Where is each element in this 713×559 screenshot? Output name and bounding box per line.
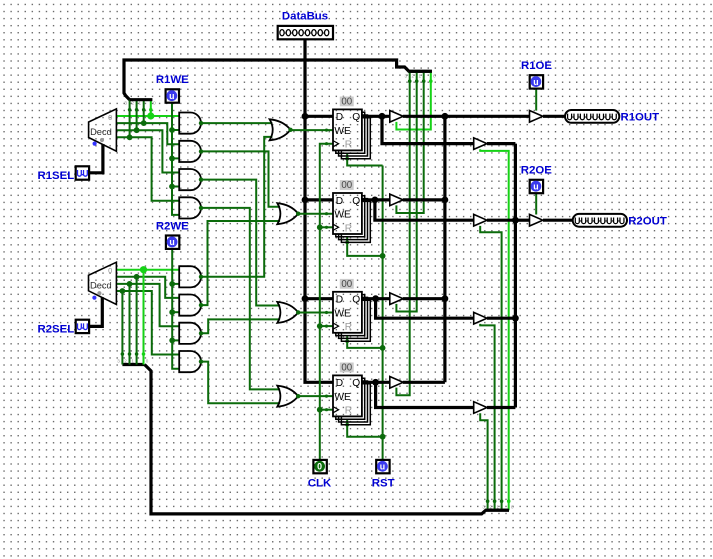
svg-text:1: 1 [131, 359, 134, 364]
output pin R2OUT (8-bit) [573, 214, 627, 227]
wire register 4 Q branch to R2 buffer [376, 382, 474, 407]
wire buffer3 out to R1 bus [403, 297, 445, 300]
wire splitter D bit3 riser [121, 291, 123, 365]
wire D input tap register 2 [305, 198, 333, 201]
wire splitter D bit0 riser [143, 270, 145, 365]
wire CLK stub register 2 [320, 226, 333, 228]
register REG3 (8-bit D register with WE and reset) [333, 292, 370, 341]
svg-text:2: 2 [124, 359, 127, 364]
wire decoder1 out3 to AND g4 [116, 137, 179, 201]
wire R2SEL pin to decoder2 select [89, 297, 103, 326]
wire g2 out to OR2 top [201, 151, 280, 206]
input pin RST [376, 460, 389, 473]
node decoder1 output junctions [147, 112, 154, 119]
svg-text:RST: RST [372, 477, 395, 489]
node register pin nubs [325, 129, 328, 132]
wire D input tap register 1 [305, 115, 333, 118]
wire register 2 R to RST rail [347, 237, 382, 256]
tri-state buffer R1OE output [530, 111, 543, 123]
register REG2 (8-bit D register with WE and reset) [333, 193, 370, 242]
wire register 4 R to RST rail [347, 420, 382, 437]
wire g3 out to OR3 top [201, 180, 280, 306]
svg-text:D: D [336, 378, 343, 389]
svg-text:1: 1 [496, 504, 499, 509]
svg-text:3: 3 [405, 74, 408, 79]
svg-text:R1SEL: R1SEL [37, 170, 74, 182]
svg-text:D: D [336, 196, 343, 207]
wire R2 select bus (splitter D to splitter C, bottom rail) [145, 365, 510, 514]
wire decoder1 out2 to AND g3 [116, 130, 179, 172]
svg-text:R: R [345, 223, 352, 234]
wire R1 enable bit row2 to buffer [396, 71, 423, 213]
node splitter B bit ends [429, 79, 433, 83]
wire register 3 Q branch to R2 buffer [376, 299, 474, 319]
input pin DataBus (8-bit) [278, 26, 333, 39]
input pin R1OE [530, 75, 543, 88]
wire R2OE pin to buffer enable [535, 193, 537, 215]
svg-text:00: 00 [341, 363, 352, 374]
wire R2WE stub to AND input [172, 283, 179, 285]
wire CLK stub register 4 [320, 409, 333, 411]
OR gate o4 (register 4 WE) [277, 386, 298, 407]
tri-state buffer b2 (reg2 to R1 bus) [390, 194, 403, 206]
node RST rail junctions [380, 253, 386, 259]
splitter C fan (R2 enable bus) [486, 509, 509, 512]
wire R2WE rail [172, 249, 179, 369]
wire register 3 Q out [362, 297, 390, 300]
wire splitter D bit1 riser [136, 277, 138, 365]
wire decoder1 out1 to AND g2 [116, 123, 179, 144]
svg-text:3: 3 [482, 504, 485, 509]
input pin R1WE [166, 89, 179, 102]
node register R pin exits [345, 157, 349, 161]
wire R2WE stub to AND input [172, 339, 179, 341]
wire register 2 Q out [362, 198, 390, 201]
wire splitter D bit2 riser [129, 284, 131, 365]
svg-text:00: 00 [341, 97, 352, 108]
wire decoder2 out3 to AND g8 [116, 291, 179, 355]
wire RST rail [382, 166, 384, 460]
svg-text:3: 3 [124, 101, 127, 106]
wire R1OE pin to buffer enable [535, 88, 537, 110]
svg-text:u: u [169, 237, 174, 247]
svg-text:D: D [336, 112, 343, 123]
node R1WE rail junctions [169, 127, 175, 133]
wire R1 enable bit row3 to buffer [396, 71, 416, 311]
OR gate o3 (register 3 WE) [277, 302, 298, 323]
wire register 4 Q out [362, 381, 390, 384]
wire R2 enable bit row3 to buffer [480, 324, 494, 510]
wire g1 out to OR1 top [201, 122, 272, 124]
wire D input tap register 3 [305, 297, 333, 300]
svg-text:u: u [533, 77, 538, 87]
svg-text:0: 0 [108, 113, 112, 122]
svg-text:DataBus: DataBus [282, 10, 328, 22]
wire R2 bus to R2OE buffer and R2OUT pin [515, 219, 529, 222]
svg-text:1: 1 [139, 101, 142, 106]
input pin R2OE [530, 180, 543, 193]
wire R1OE buffer out to R1OUT pin [543, 115, 565, 118]
wire R1WE stub to AND input [172, 157, 179, 159]
decoder U2 (R2SEL) [89, 262, 117, 304]
svg-text:0: 0 [317, 462, 322, 472]
svg-text:2: 2 [131, 101, 134, 106]
svg-text:0: 0 [153, 101, 156, 106]
svg-text:R1WE: R1WE [156, 74, 189, 86]
wire CLK rail [320, 144, 333, 460]
wire R2 buffer 3 out to R2 bus [487, 317, 515, 320]
wire R2 buffer 2 out to R2 bus [487, 219, 515, 222]
wire R2WE stub to AND input [172, 311, 179, 313]
svg-text:0: 0 [433, 74, 436, 79]
register REG1 value label 00 [340, 97, 354, 107]
svg-text:2: 2 [489, 504, 492, 509]
wire splitter A bit2 drop [136, 100, 138, 131]
node R2WE rail junctions [169, 281, 175, 287]
node splitter A bit ends [149, 108, 153, 112]
register REG2 value label 00 [340, 180, 354, 190]
register REG4 value label 00 [340, 363, 354, 373]
svg-text:Decd: Decd [90, 127, 112, 137]
svg-text:3: 3 [117, 359, 120, 364]
svg-text:WE: WE [334, 210, 351, 221]
wire OR2 out to register 2 WE [298, 213, 333, 215]
wire R2 enable bit row4 to buffer [480, 413, 487, 510]
register REG4 (8-bit D register with WE and reset) [333, 375, 370, 424]
tri-state buffer R2OE output [530, 214, 543, 226]
svg-text:0: 0 [108, 266, 112, 275]
register REG3 value label 00 [340, 279, 354, 289]
wire decoder2 out2 to AND g7 [116, 284, 179, 326]
wire register1 Q to R1OUT line [362, 115, 390, 118]
svg-text:R2SEL: R2SEL [37, 323, 74, 335]
svg-text:00: 00 [341, 279, 352, 290]
svg-text:u: u [533, 181, 538, 191]
wire R2 enable bit row2 to buffer [480, 226, 501, 510]
wire decoder1 out0 to AND g1 [116, 115, 179, 117]
svg-text:WE: WE [334, 126, 351, 137]
svg-text:R2WE: R2WE [156, 220, 189, 232]
node register Q branches [379, 113, 386, 120]
wire buffer2 out to R1 bus [403, 198, 445, 201]
wire OR4 out to register 4 WE [298, 395, 333, 397]
AND gate g7 (R2 write decode 2) [179, 323, 201, 344]
svg-text:0: 0 [511, 504, 514, 509]
wire decoder2 out1 to AND g6 [116, 277, 179, 298]
wire R1 collect bus vertical [443, 116, 446, 382]
svg-text:CLK: CLK [308, 477, 332, 489]
node splitter C bit ends [507, 499, 511, 503]
wire g8 out to OR4 bottom [201, 362, 280, 404]
node databus D taps [302, 113, 309, 120]
svg-text:1: 1 [419, 74, 422, 79]
tri-state buffer b3 (reg3 to R1 bus) [390, 293, 403, 305]
wire splitter A bit3 drop [129, 100, 131, 138]
svg-text:Decd: Decd [90, 281, 112, 291]
node R2 bus joins [512, 217, 519, 224]
svg-text:R2OE: R2OE [521, 165, 552, 177]
input pin R2WE [166, 236, 179, 249]
svg-text:WE: WE [334, 392, 351, 403]
node decoder2 output junctions [140, 266, 147, 273]
wire R1WE stub to AND input [172, 129, 179, 131]
wire splitter A bit0 drop [150, 100, 152, 116]
wire g7 out to OR3 bottom [201, 319, 280, 333]
wire R2 collect bus vertical [514, 144, 517, 408]
svg-text:Q: Q [352, 196, 360, 207]
tri-state buffer b5 (reg1 to R2 bus) [474, 138, 487, 150]
wire databus vertical trunk [305, 39, 333, 382]
input pin R1SEL (2-bit) [76, 166, 89, 179]
wire R1SEL pin to decoder1 select [89, 144, 103, 173]
svg-text:R: R [345, 406, 352, 417]
wire R1WE stub to AND input [172, 186, 179, 188]
svg-text:WE: WE [334, 308, 351, 319]
svg-text:Q: Q [352, 112, 360, 123]
wire g4 out to OR4 top [201, 208, 280, 390]
wire g6 out to OR2 bottom [201, 221, 280, 305]
wire OR1 out to register 1 WE [291, 129, 334, 131]
wire decoder2 out0 to AND g5 [116, 269, 179, 271]
wire R2 enable bit row1 to buffer [480, 149, 509, 510]
tri-state buffer b6 (reg2 to R2 bus) [474, 214, 487, 226]
node splitter D bit ends [142, 352, 146, 356]
output pin R1OUT (8-bit) [565, 110, 619, 123]
decoder U1 (R1SEL) [89, 109, 117, 151]
OR gate o1 (register 1 WE) [270, 119, 291, 140]
svg-text:R: R [345, 140, 352, 151]
tri-state buffer b8 (reg4 to R2 bus) [474, 402, 487, 414]
svg-text:u: u [380, 462, 385, 472]
wire register 3 R to RST rail [347, 336, 382, 348]
AND gate g6 (R2 write decode 1) [179, 295, 201, 316]
svg-text:D: D [336, 295, 343, 306]
svg-text:Q: Q [352, 295, 360, 306]
wire R2 buffer 4 out to R2 bus [487, 406, 515, 409]
wire R1 enable bit row4 to buffer [396, 71, 409, 395]
wire R2 buffer 1 out to R2 bus [487, 142, 515, 145]
wire register 1 R to RST rail [347, 154, 382, 166]
svg-text:00: 00 [341, 180, 352, 191]
tri-state buffer b4 (reg4 to R1 bus) [390, 377, 403, 389]
wire register 1 Q branch to R2 buffer [382, 116, 474, 143]
input pin R2SEL (2-bit) [76, 320, 89, 333]
wire splitter A bit1 drop [143, 100, 145, 123]
svg-text:u: u [169, 91, 174, 101]
wire g5 out to OR1 bottom [201, 137, 272, 277]
AND gate g5 (R2 write decode 0) [179, 266, 201, 287]
wire R1 select bus (decoder1 to splitter B) [124, 60, 432, 100]
svg-text:R2OUT: R2OUT [628, 215, 667, 227]
AND gate g2 (R1 write decode 1) [179, 141, 201, 162]
input pin CLK [313, 460, 326, 473]
svg-text:R1OE: R1OE [521, 60, 552, 72]
AND gate g4 (R1 write decode 3) [179, 197, 201, 218]
wire OR3 out to register 3 WE [298, 312, 333, 314]
wire register 2 Q branch to R2 buffer [375, 200, 474, 220]
splitter A fan (R1 select bus) [130, 98, 153, 101]
OR gate o2 (register 2 WE) [277, 203, 298, 224]
register REG1 (8-bit D register with WE and reset) [333, 109, 370, 158]
svg-text:2: 2 [412, 74, 415, 79]
node R1 bus joins [442, 113, 449, 120]
svg-text:R: R [345, 322, 352, 333]
wire buffer4 out to R1 bus [403, 381, 445, 384]
node CLK rail junctions [317, 224, 323, 230]
AND gate g1 (R1 write decode 0) [179, 113, 201, 134]
tri-state buffer b7 (reg3 to R2 bus) [474, 312, 487, 324]
svg-text:0: 0 [146, 359, 149, 364]
wire R1WE rail [172, 102, 179, 215]
tri-state buffer b1 (reg1 to R1 bus) [390, 111, 403, 123]
AND gate g3 (R1 write decode 2) [179, 169, 201, 190]
AND gate g8 (R2 write decode 3) [179, 351, 201, 372]
wire CLK stub register 3 [320, 325, 333, 327]
wire R1 enable bit row1 to buffer [396, 71, 430, 129]
svg-text:Q: Q [352, 378, 360, 389]
splitter B fan (R1 enable bus) [409, 70, 432, 73]
svg-text:R1OUT: R1OUT [621, 111, 660, 123]
